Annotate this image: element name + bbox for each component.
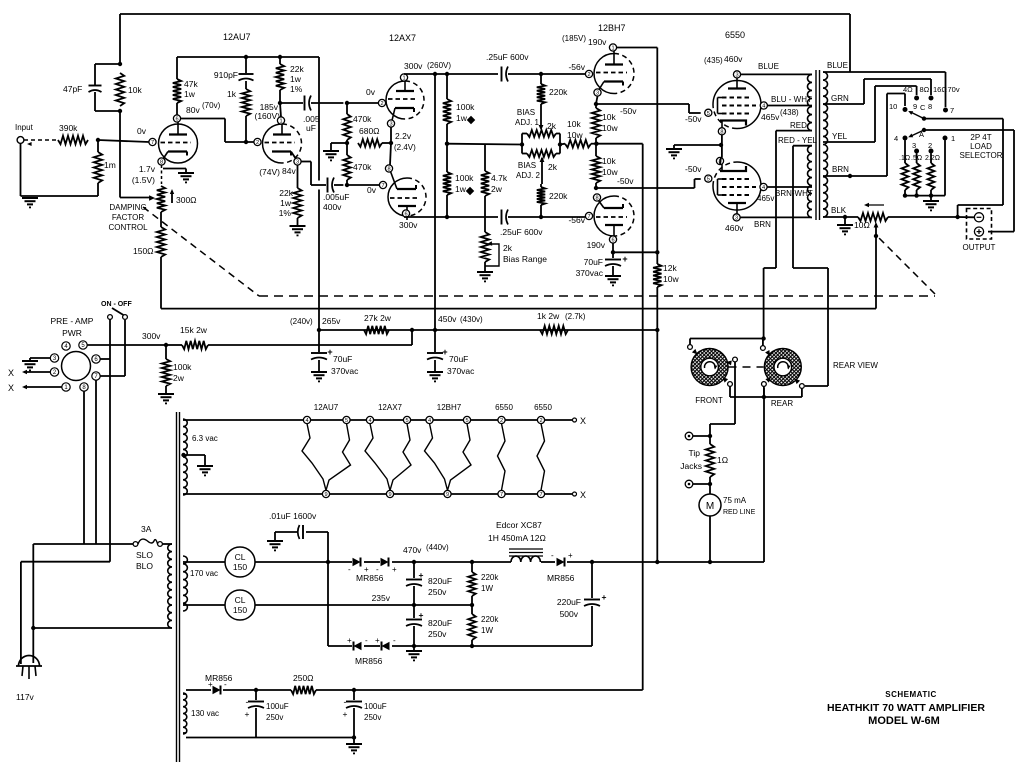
wire bus 450v stage1 <box>177 56 319 58</box>
svg-text:Input: Input <box>15 123 34 132</box>
terminal rear t <box>761 346 771 356</box>
wire RED-YEL tap <box>778 136 828 386</box>
label preamp pwr <box>51 316 94 338</box>
label 0v axb <box>367 185 377 195</box>
label 12AX7 <box>389 33 416 43</box>
svg-text:117v: 117v <box>16 692 35 702</box>
svg-text:0v: 0v <box>367 185 377 195</box>
wire chassis dashed <box>143 207 935 296</box>
wire main b+ line <box>186 398 764 563</box>
label 465v lower <box>757 194 774 203</box>
svg-text:150: 150 <box>233 562 247 572</box>
wire 235v line <box>186 604 472 606</box>
svg-text:BLK: BLK <box>831 206 847 215</box>
svg-text:9: 9 <box>324 492 327 498</box>
switch rotary REAR <box>764 349 801 409</box>
svg-text:0v: 0v <box>366 87 376 97</box>
svg-text:2.2Ω: 2.2Ω <box>925 155 940 162</box>
label 300v preamp <box>142 331 161 341</box>
wire cathode join <box>382 127 391 165</box>
label title <box>827 690 985 727</box>
label MR856 top <box>356 573 384 583</box>
svg-text:300v: 300v <box>404 61 423 71</box>
wire grid to pin7 <box>98 140 149 142</box>
svg-text:A: A <box>919 130 924 139</box>
wire pin6 switch <box>100 358 110 360</box>
svg-text:BLUE: BLUE <box>827 61 848 70</box>
resistor 2.2ohm <box>925 153 940 195</box>
diode MR856 d4 <box>375 636 396 651</box>
wire pin3 gnd <box>30 358 50 360</box>
node grid2 junction <box>244 140 248 144</box>
capacitor 910pF <box>214 57 254 81</box>
contact 2 <box>929 149 934 154</box>
node 470v <box>412 560 416 564</box>
svg-text:(74V): (74V) <box>259 167 280 177</box>
contact 8 <box>929 96 934 101</box>
svg-text:10k: 10k <box>602 156 616 166</box>
svg-text:8: 8 <box>387 167 390 173</box>
switch wiper C <box>908 103 926 121</box>
svg-text:(435): (435) <box>704 56 723 65</box>
capacitor 820uF first <box>406 562 452 605</box>
svg-text:27k 2w: 27k 2w <box>364 313 392 323</box>
svg-text:(2.7k): (2.7k) <box>565 312 586 321</box>
label 84v <box>259 166 296 177</box>
potentiometer 2k bias2 <box>522 150 560 157</box>
wire 680 ground stub <box>331 143 347 150</box>
transformer output secondary <box>823 72 828 217</box>
wire contact1 drop <box>944 140 946 195</box>
resistor 22k 1w 1% lower <box>279 165 302 225</box>
svg-text:460v: 460v <box>724 54 743 64</box>
svg-text:7: 7 <box>950 106 954 115</box>
svg-text:1H 450mA 12Ω: 1H 450mA 12Ω <box>488 533 546 543</box>
node 220k top <box>470 560 474 564</box>
svg-text:300v: 300v <box>399 220 418 230</box>
node bus lower 100k <box>445 215 449 219</box>
resistor 390k <box>58 123 88 144</box>
svg-text:3: 3 <box>389 122 392 128</box>
resistor 1k step <box>227 81 250 142</box>
svg-text:220k: 220k <box>481 573 499 582</box>
choke Edcor <box>488 520 546 562</box>
svg-text:1%: 1% <box>290 84 303 94</box>
svg-text:+: + <box>442 347 447 357</box>
svg-text:DAMPING: DAMPING <box>109 203 146 212</box>
ground 6.3vac <box>197 466 213 475</box>
label -56v lower <box>568 215 585 225</box>
ground bias range <box>477 272 493 281</box>
svg-text:.5Ω: .5Ω <box>911 155 922 162</box>
svg-text:5: 5 <box>405 418 408 424</box>
node tip lower <box>708 482 712 486</box>
svg-text:1: 1 <box>951 134 955 143</box>
svg-text:9: 9 <box>446 492 449 498</box>
svg-text:BRN-WHT: BRN-WHT <box>775 189 813 198</box>
svg-text:7: 7 <box>587 214 590 220</box>
svg-text:SELECTOR: SELECTOR <box>960 151 1003 160</box>
tube 12AX7b <box>379 165 426 220</box>
svg-text:2k: 2k <box>503 243 513 253</box>
svg-text:250v: 250v <box>428 629 447 639</box>
wire rear riser <box>763 388 765 398</box>
switch on-off <box>101 301 132 319</box>
svg-text:+: + <box>245 709 250 719</box>
wire bias feed <box>354 144 643 690</box>
svg-text:-: - <box>551 551 554 560</box>
node input grid <box>96 138 100 142</box>
svg-text:370vac: 370vac <box>447 366 475 376</box>
ground 70uF third <box>311 372 327 381</box>
switch wiper A <box>908 128 926 139</box>
breaker CL150 first <box>225 547 255 577</box>
svg-text:MR856: MR856 <box>356 573 384 583</box>
svg-text:0v: 0v <box>137 126 147 136</box>
wire switch bottom <box>730 386 802 397</box>
svg-text:390k: 390k <box>59 123 78 133</box>
resistor 220k 1W lower <box>468 605 499 646</box>
svg-text:2: 2 <box>928 141 932 150</box>
contact 10 <box>903 107 908 112</box>
label -50v l1 <box>617 176 634 186</box>
wire 300v preamp <box>87 330 412 345</box>
svg-text:190v: 190v <box>587 240 606 250</box>
wire top feedback line <box>120 14 850 72</box>
node lv neg <box>412 644 416 648</box>
svg-text:10Ω: 10Ω <box>854 220 870 230</box>
svg-text:-50v: -50v <box>685 164 702 174</box>
node 450v a <box>410 328 414 332</box>
svg-text:(185V): (185V) <box>562 34 586 43</box>
label c1 <box>951 134 955 143</box>
resistor 27k 2w <box>364 313 392 334</box>
wire switch top <box>690 339 764 346</box>
svg-text:3: 3 <box>735 215 738 221</box>
node 220k mid <box>470 603 474 607</box>
svg-text:7: 7 <box>381 183 384 189</box>
wire 6.3 ct gnd <box>184 455 206 465</box>
diode MR856 d1 <box>348 558 369 575</box>
svg-text:100uF: 100uF <box>364 702 387 711</box>
tube 6550 lower <box>705 157 767 221</box>
ground 12AU7a cathode <box>178 173 194 182</box>
transformer output primary upper <box>808 74 812 130</box>
svg-text:CONTROL: CONTROL <box>108 223 148 232</box>
svg-text:Jacks: Jacks <box>680 461 702 471</box>
node 6550 cathode <box>719 143 723 147</box>
node 6.3 ct <box>181 453 185 457</box>
node output junction <box>955 215 959 219</box>
resistor 47k 1w <box>173 57 199 115</box>
svg-text:1Ω: 1Ω <box>717 455 728 465</box>
svg-text:3A: 3A <box>141 524 152 534</box>
wire wiper1 <box>539 104 557 131</box>
label 300v upper <box>404 61 451 71</box>
ground BLK <box>837 217 853 234</box>
svg-text:450v: 450v <box>438 314 457 324</box>
transformer output primary lower <box>808 146 812 218</box>
svg-text:22k: 22k <box>279 188 293 198</box>
svg-text:70uF: 70uF <box>449 354 468 364</box>
node meter <box>708 560 712 564</box>
svg-text:220uF: 220uF <box>557 597 581 607</box>
svg-text:5: 5 <box>707 111 710 117</box>
node 265v <box>317 328 321 332</box>
svg-text:250v: 250v <box>266 713 283 722</box>
svg-text:(70v): (70v) <box>202 101 221 110</box>
node bias center <box>594 142 598 146</box>
svg-text:12BH7: 12BH7 <box>437 403 462 412</box>
capacitor 70uF 370vac first <box>576 252 628 278</box>
svg-text:47pF: 47pF <box>63 84 82 94</box>
svg-text:4: 4 <box>305 418 308 424</box>
wire BLUE primary <box>741 62 812 74</box>
resistor 10k 10w first <box>592 104 619 144</box>
resistor 220k 1W upper <box>468 562 499 605</box>
svg-text:10w: 10w <box>663 274 679 284</box>
svg-text:(438): (438) <box>780 108 799 117</box>
svg-text:1k 2w: 1k 2w <box>537 311 560 321</box>
node cathode 2.2v <box>389 141 393 145</box>
resistor 470k upper <box>343 103 372 143</box>
svg-text:FRONT: FRONT <box>695 396 723 405</box>
jack output <box>963 209 996 253</box>
transformer 130vac winding <box>183 693 219 734</box>
ground 70uF first <box>605 276 621 285</box>
wire lv bottom rail <box>328 562 592 646</box>
wire wiper A out <box>924 130 1014 232</box>
label -56v upper <box>568 62 585 72</box>
label 470v <box>403 543 449 555</box>
label c2 <box>928 141 932 150</box>
meter 75mA <box>699 484 756 562</box>
wire 190v node <box>613 243 657 252</box>
wire cathode to cap <box>301 162 326 186</box>
svg-text:4Ω: 4Ω <box>903 85 913 94</box>
label MR856 bottom <box>355 656 383 666</box>
capacitor 47pF <box>63 64 120 111</box>
potentiometer 2k bias range <box>481 232 547 266</box>
resistor 220k lower <box>537 184 568 217</box>
label c3 <box>912 141 916 150</box>
svg-text:+: + <box>419 570 424 580</box>
svg-text:220k: 220k <box>549 87 568 97</box>
wire cathode dashed <box>161 165 163 184</box>
resistor 10k 10w horizontal <box>560 119 596 148</box>
svg-text:10w: 10w <box>602 167 618 177</box>
node sel3 <box>929 193 933 197</box>
svg-text:820uF: 820uF <box>428 576 452 586</box>
wire BLUE secondary <box>823 61 946 107</box>
resistor 15k 2w <box>180 325 208 349</box>
fuse 3A <box>133 524 162 571</box>
node bias left <box>520 142 524 146</box>
ground bias <box>346 738 362 754</box>
wire 450v line <box>319 329 657 331</box>
wire pin1 stem <box>403 73 405 75</box>
heater 6550 b <box>534 403 552 498</box>
node bias 2 <box>352 688 356 692</box>
label -50v u2 <box>685 114 702 124</box>
svg-text:12AU7: 12AU7 <box>314 403 339 412</box>
svg-text:YEL: YEL <box>832 132 848 141</box>
svg-text:HEATHKIT 70 WATT AMPLIFIER: HEATHKIT 70 WATT AMPLIFIER <box>827 702 985 714</box>
tube 6550 upper <box>705 71 768 136</box>
svg-text:47k: 47k <box>184 79 198 89</box>
wire BLK secondary <box>823 206 858 217</box>
svg-text:3: 3 <box>735 72 738 78</box>
svg-text:(2.4V): (2.4V) <box>394 143 416 152</box>
svg-text:1k: 1k <box>227 89 237 99</box>
contact 1 <box>943 136 948 141</box>
label c7 <box>950 106 954 115</box>
svg-text:6550: 6550 <box>725 30 745 40</box>
wire RED tap <box>764 121 812 339</box>
wire wiper C out <box>924 119 1003 217</box>
label 465v upper <box>761 108 799 122</box>
wire fuse to primary <box>162 543 172 545</box>
svg-text:ADJ. 1: ADJ. 1 <box>515 118 540 127</box>
svg-text:2P 4T: 2P 4T <box>970 133 991 142</box>
plug 117v <box>16 656 42 702</box>
svg-text:(1.5V): (1.5V) <box>132 175 155 185</box>
svg-text:.01uF 1600v: .01uF 1600v <box>269 511 317 521</box>
svg-text:820uF: 820uF <box>428 618 452 628</box>
node 190v b <box>655 250 659 254</box>
svg-text:10: 10 <box>889 102 897 111</box>
svg-text:1w: 1w <box>455 184 467 194</box>
svg-text:4.7k: 4.7k <box>491 173 508 183</box>
svg-text:370vac: 370vac <box>331 366 359 376</box>
svg-text:370vac: 370vac <box>576 268 604 278</box>
ground 70uF second <box>427 372 443 381</box>
svg-text:10k: 10k <box>567 119 581 129</box>
svg-text:5: 5 <box>345 418 348 424</box>
svg-text:GRN: GRN <box>831 94 849 103</box>
resistor 10k 10w second <box>592 144 619 188</box>
svg-text:M: M <box>706 501 714 512</box>
heater 12BH7 <box>425 403 472 498</box>
diode MR856 d2 <box>376 558 397 575</box>
label 185v <box>254 102 280 121</box>
svg-text:BLO: BLO <box>136 561 153 571</box>
capacitor .01uF 1600v <box>269 511 328 562</box>
switch rotary FRONT <box>691 349 728 406</box>
svg-text:6550: 6550 <box>495 403 513 412</box>
svg-text:1w: 1w <box>290 74 302 84</box>
ground 22k lower <box>290 226 306 235</box>
resistor 1ohm <box>706 436 728 484</box>
wire heater top rail <box>186 416 586 426</box>
svg-text:2: 2 <box>256 140 259 146</box>
wire to output minus <box>958 216 975 218</box>
svg-text:8: 8 <box>595 196 598 202</box>
label 80v <box>186 101 221 115</box>
capacitor 100uF first <box>245 690 289 738</box>
svg-text:CL: CL <box>235 552 246 562</box>
svg-text:2w: 2w <box>491 184 503 194</box>
svg-text:4: 4 <box>894 134 898 143</box>
resistor 22k 1w 1% upper <box>276 57 305 103</box>
wire BRN secondary <box>823 94 905 177</box>
svg-text:CL: CL <box>235 595 246 605</box>
svg-text:(240v): (240v) <box>290 317 313 326</box>
label 2P4T <box>960 133 1003 160</box>
svg-text:MR856: MR856 <box>355 656 383 666</box>
svg-text:8: 8 <box>928 102 932 111</box>
svg-text:1: 1 <box>402 76 405 82</box>
svg-text:2k: 2k <box>548 162 558 172</box>
svg-text:10k: 10k <box>128 85 142 95</box>
svg-text:100k: 100k <box>173 362 192 372</box>
wire damping vertical <box>120 111 155 201</box>
svg-text:8Ω: 8Ω <box>920 85 930 94</box>
resistor 470k lower <box>343 143 372 185</box>
svg-text:100k: 100k <box>456 102 475 112</box>
svg-text:(160V): (160V) <box>254 111 280 121</box>
svg-text:2: 2 <box>500 418 503 424</box>
node 235v <box>412 603 416 607</box>
wire YEL secondary <box>823 86 917 142</box>
svg-text:100k: 100k <box>455 173 474 183</box>
wire b+ vertical 12AX7 <box>434 74 436 330</box>
resistor .5ohm <box>911 153 922 195</box>
svg-text:190v: 190v <box>588 37 607 47</box>
svg-text:22k: 22k <box>290 64 304 74</box>
svg-text:PRE - AMP: PRE - AMP <box>51 316 94 326</box>
capacitor 820uF second <box>406 605 452 646</box>
node sel1 <box>903 193 907 197</box>
svg-text:470v: 470v <box>403 545 422 555</box>
label 450v <box>438 314 483 324</box>
svg-text:+: + <box>392 565 397 574</box>
svg-text:70uF: 70uF <box>333 354 352 364</box>
svg-text:1%: 1% <box>279 208 292 218</box>
contact 3 <box>914 149 919 154</box>
svg-text:2: 2 <box>539 418 542 424</box>
capacitor 70uF second <box>427 330 475 376</box>
ground 820uF <box>406 646 422 660</box>
label bias adj1 <box>515 108 540 127</box>
wire -50v lower <box>596 179 701 188</box>
resistor 10k damping <box>116 73 143 106</box>
capacitor 100uF second <box>343 690 387 738</box>
label damping factor control <box>108 203 148 232</box>
wire bias top <box>186 689 354 691</box>
svg-text:7: 7 <box>151 140 154 146</box>
ground .01uF <box>267 541 283 550</box>
ground 680ohm <box>323 151 339 160</box>
contact 9 <box>914 96 919 101</box>
wire pin7 switch <box>100 320 125 376</box>
svg-text:BRN: BRN <box>832 165 849 174</box>
node rect in <box>326 560 330 564</box>
capacitor .005uF upper <box>280 96 343 134</box>
label -50v l2 <box>685 164 702 174</box>
svg-text:300Ω: 300Ω <box>176 195 197 205</box>
wire cathode ground stub <box>163 169 186 173</box>
node bus b+ <box>433 72 437 76</box>
svg-text:-: - <box>246 697 249 707</box>
tube 12BH7a <box>585 44 634 97</box>
svg-text:680Ω: 680Ω <box>359 126 380 136</box>
svg-text:12AU7: 12AU7 <box>223 32 251 42</box>
label tip jacks <box>680 448 702 471</box>
node BRN <box>848 174 852 178</box>
label c10 <box>889 102 897 111</box>
svg-text:2: 2 <box>587 72 590 78</box>
